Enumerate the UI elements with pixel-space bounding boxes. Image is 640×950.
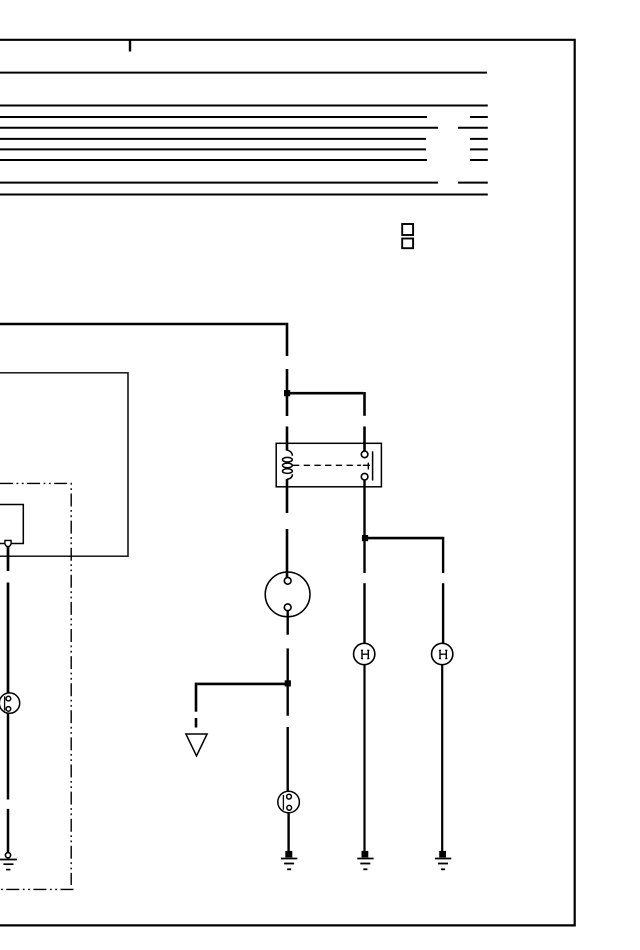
terminal pin [5,540,11,546]
wire: coil to horn switch [286,479,289,578]
horn H1 [354,643,375,664]
wire: connector to ground [287,813,289,852]
text placeholder box 1 [402,224,413,235]
wire: terminal down [7,546,10,693]
node: contact output junction [362,535,368,541]
connector (left, circled) [0,693,20,713]
bus line 2 [0,105,488,107]
horn switch [265,572,310,617]
arrow to another circuit [186,734,207,756]
component box (left module) [0,373,128,556]
bus line 1 [0,72,487,74]
wire: left connector to ground [7,713,10,852]
wire: junction down to connector [287,727,289,791]
ground G2 [357,851,373,869]
bus line 9 [0,194,488,196]
horn relay box [276,443,381,487]
wire: switch to branch junction [287,611,289,716]
tick mark on top border [129,40,131,52]
horn H2 [432,643,453,664]
ground G3 [435,851,451,869]
bus line 3 [0,116,488,118]
wire: branch to horn 2 [365,537,444,644]
wire: coil feed into relay [286,427,289,451]
wire: contact output down to horn 1 [363,480,365,644]
device box with terminal [0,505,23,544]
node: relay feed junction [284,390,290,396]
wire: branch to relay contact [287,392,365,451]
text placeholder box 2 [402,239,413,249]
wire: branch to arrow [196,683,288,728]
bus line 8 [0,182,488,184]
bus line 7 [0,159,488,161]
wire: horn 2 to ground [441,665,443,852]
relay contact [293,451,373,480]
node: arrow branch junction [285,680,291,686]
bus line 6 [0,148,488,150]
wire: vertical drop to coil junction [286,369,289,416]
bus line 4 [0,127,488,129]
ground (left) [0,853,17,870]
connector (inline, circled) [278,791,300,813]
ground G1 [281,851,297,869]
bus line 5 [0,138,488,140]
wire: feed horizontal to relay column [0,323,287,356]
dash-dot harness boundary [0,483,74,889]
relay coil [283,450,293,480]
wire: horn 1 to ground [363,665,365,852]
